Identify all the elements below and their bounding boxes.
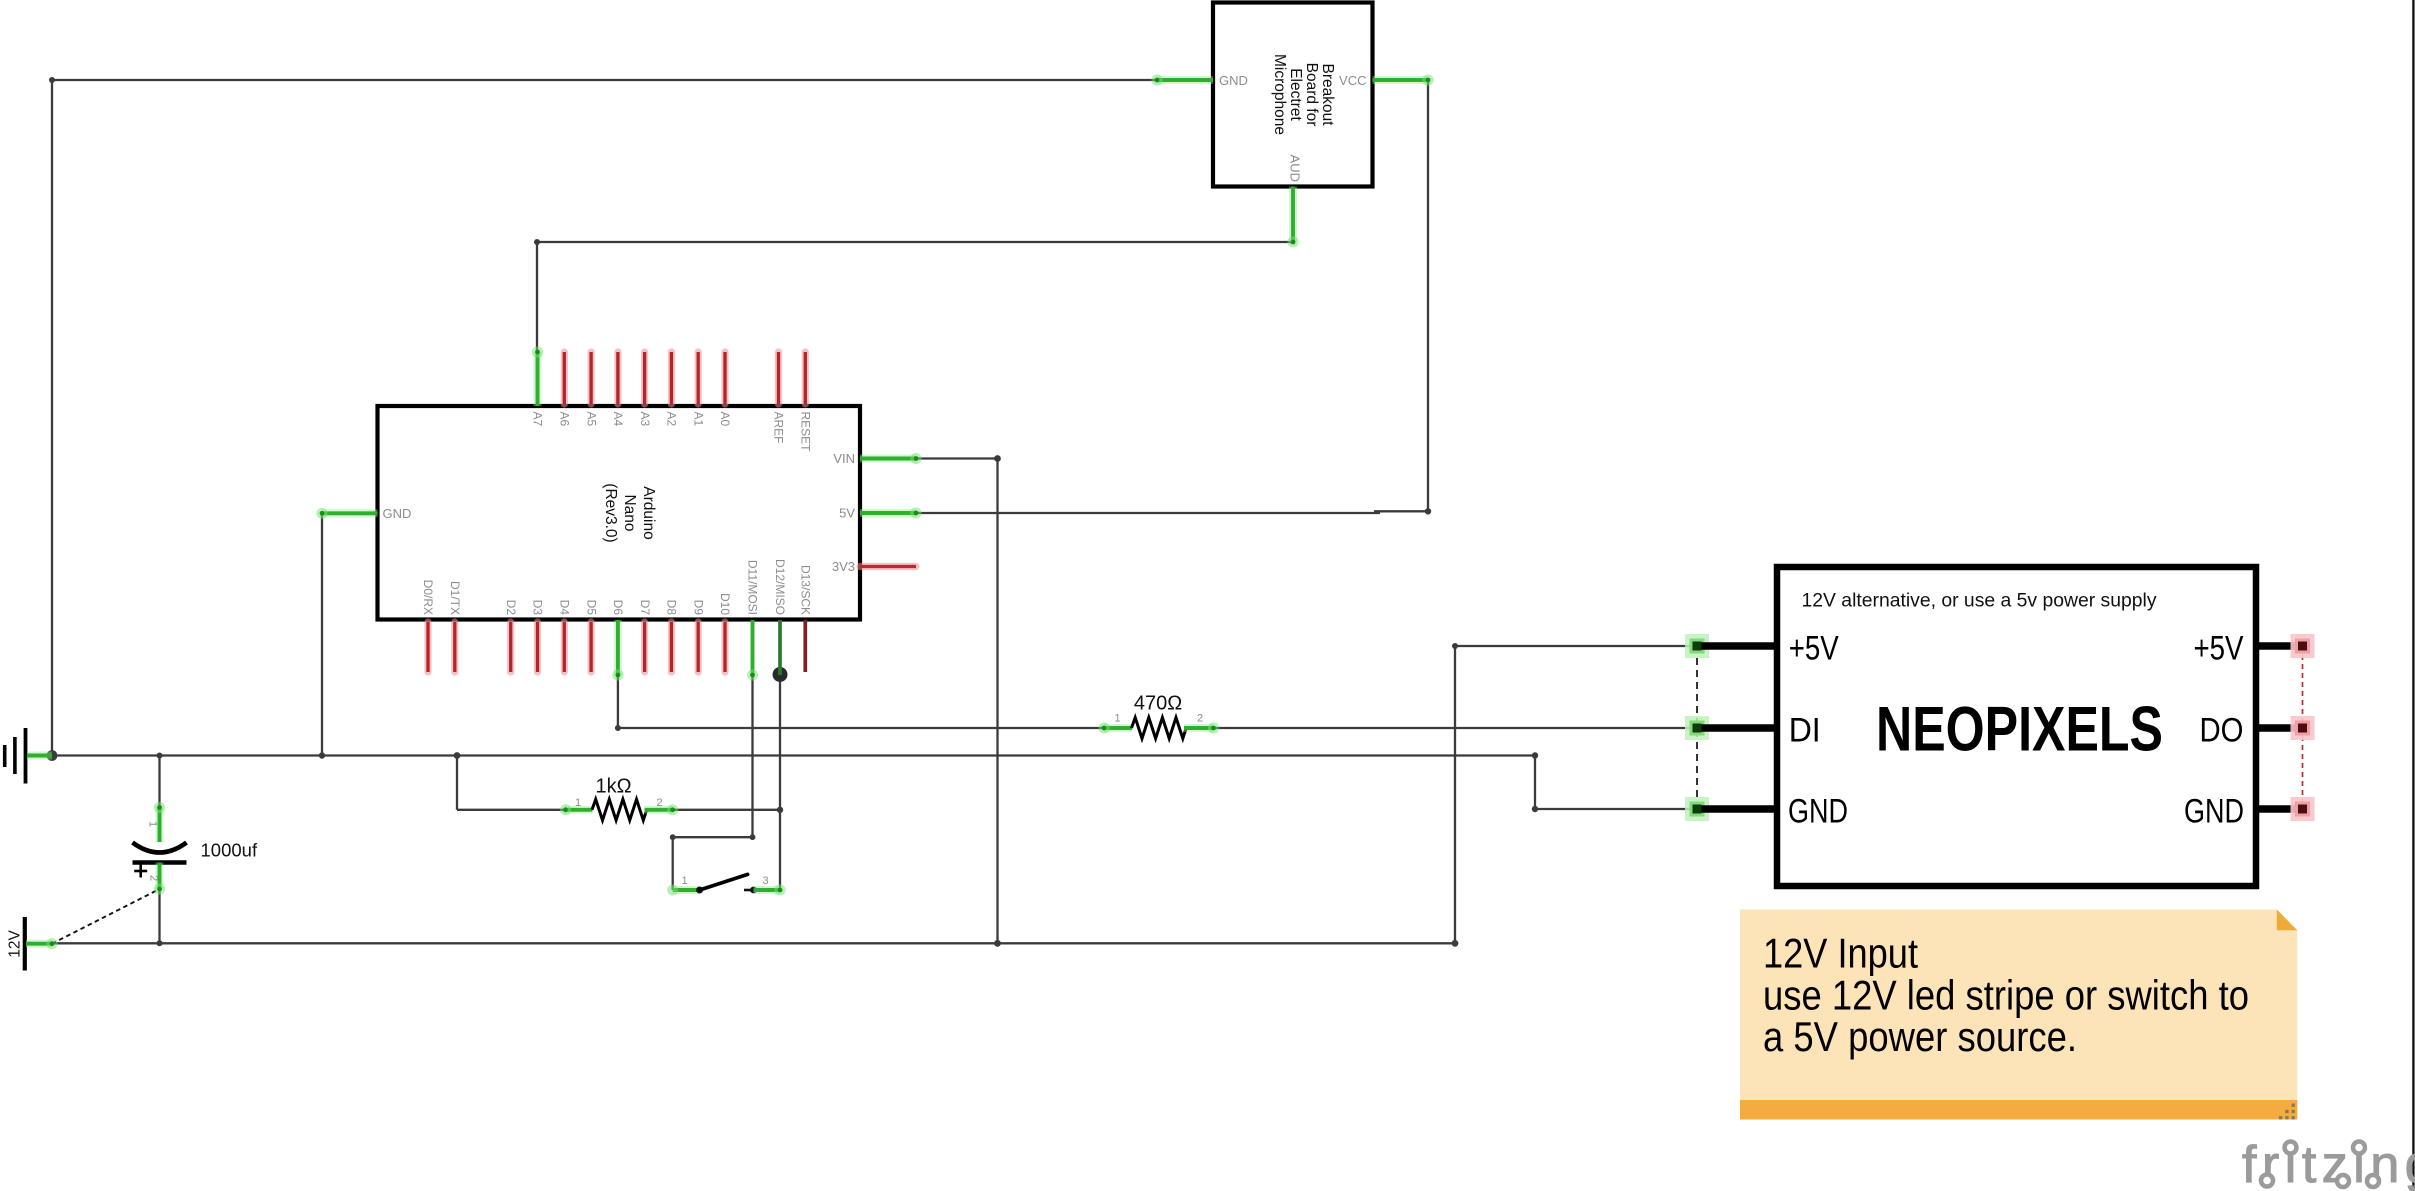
sticky note body	[1740, 910, 2297, 1120]
Arduino pin D8	[668, 622, 675, 672]
svg-text:1: 1	[575, 797, 581, 809]
resistor R1 pin2 stub	[1184, 724, 1214, 732]
svg-text:A0: A0	[718, 412, 732, 427]
Arduino pin D9	[695, 622, 702, 672]
wire: Arduino D12 vertical to switch pin3	[779, 675, 781, 891]
svg-text:D3: D3	[531, 600, 545, 616]
svg-text:Nano: Nano	[621, 494, 638, 531]
Arduino pin D6	[614, 620, 622, 675]
svg-text:A5: A5	[584, 412, 598, 427]
Arduino pin D13/SCK	[803, 620, 807, 672]
Arduino pin A0	[721, 352, 728, 404]
capacitor C1 pin 1	[156, 807, 164, 843]
node: D12 junction big dot	[773, 667, 788, 682]
sticky note resize grip	[2292, 1104, 2295, 1107]
Arduino pin A4	[614, 352, 621, 404]
wire: 12V riser vertical (VIN junction down to 12V rail)	[996, 459, 998, 944]
svg-text:VIN: VIN	[833, 451, 855, 466]
wire: GND net top-left vertical (mic GND to ground junction)	[51, 80, 53, 756]
wire: 12V rail riser to NeoPixels +5V	[1454, 646, 1456, 943]
svg-text:1: 1	[1114, 713, 1120, 725]
svg-text:D8: D8	[665, 600, 679, 616]
Arduino pin AREF	[775, 352, 782, 404]
svg-text:1: 1	[147, 821, 159, 827]
wire: 12V rail horizontal	[52, 942, 1455, 944]
Arduino pin D3	[534, 622, 541, 672]
mic AUD pin stub	[1289, 187, 1297, 243]
resistor R1 pin1 stub	[1104, 724, 1132, 732]
svg-text:D5: D5	[584, 600, 598, 616]
NeoPixels pin GND left	[1685, 797, 1709, 821]
mic VCC pin stub	[1373, 76, 1429, 84]
svg-text:use 12V led stripe or switch t: use 12V led stripe or switch to	[1763, 971, 2249, 1018]
12V supply symbol	[23, 917, 27, 971]
NeoPixels pin GND right	[2256, 805, 2295, 813]
svg-text:A1: A1	[691, 412, 705, 427]
Arduino pin 5V	[860, 509, 916, 517]
wire: ground rail horizontal	[52, 754, 1535, 756]
Arduino pin D12/MISO	[778, 620, 782, 675]
svg-text:5V: 5V	[839, 506, 855, 521]
wire: ground rail drop to capacitor C1	[158, 756, 160, 809]
Arduino pin 3V3	[860, 563, 916, 570]
wire: Arduino D11 vertical to switch branch	[751, 675, 753, 837]
svg-text:D1/TX: D1/TX	[448, 581, 462, 615]
svg-text:GND: GND	[2184, 793, 2244, 831]
svg-text:470Ω: 470Ω	[1134, 693, 1182, 715]
svg-text:D12/MISO: D12/MISO	[773, 559, 787, 615]
svg-text:D6: D6	[611, 600, 625, 616]
wire: ground rail drop to resistor R2 (1k)	[456, 756, 458, 810]
ground symbol	[3, 745, 7, 767]
Arduino pin A2	[668, 352, 675, 404]
svg-text:Board for: Board for	[1303, 63, 1320, 127]
Arduino pin VIN	[860, 455, 916, 463]
svg-text:D9: D9	[691, 600, 705, 616]
svg-text:AUD: AUD	[1288, 155, 1303, 182]
svg-text:GND: GND	[1788, 793, 1848, 831]
svg-text:3V3: 3V3	[832, 559, 855, 574]
Arduino pin D5	[587, 622, 594, 672]
Arduino pin D7	[641, 622, 648, 672]
NeoPixels pin DI	[1685, 716, 1709, 740]
svg-text:GND: GND	[383, 506, 412, 521]
svg-text:A4: A4	[611, 412, 625, 427]
Arduino pin D4	[561, 622, 568, 672]
Arduino pin D0/RX	[424, 622, 431, 672]
Arduino pin A7	[534, 352, 542, 406]
wire: ground rail to NeoPixels GND jog	[1534, 756, 1536, 810]
resistor R2 pin1 stub	[565, 806, 593, 814]
svg-text:Breakout: Breakout	[1319, 63, 1336, 126]
wire: resistor R1 pin2 to NeoPixels DI	[1214, 727, 1694, 729]
wire: Arduino VIN stub to 12V riser	[916, 457, 998, 459]
svg-text:NEOPIXELS: NEOPIXELS	[1876, 695, 2163, 765]
wire: switch branch horizontal	[673, 836, 753, 838]
svg-text:3: 3	[762, 875, 768, 887]
svg-text:+5V: +5V	[2194, 629, 2244, 667]
canvas right edge border	[2412, 0, 2414, 1191]
svg-text:GND: GND	[1219, 73, 1248, 88]
wire: mic VCC to Arduino 5V horizontal	[1374, 510, 1428, 512]
capacitor C1 curved plate	[133, 843, 187, 853]
Arduino pin D10	[721, 622, 728, 672]
svg-text:a 5V power source.: a 5V power source.	[1763, 1013, 2077, 1060]
fritzing logo ring dots	[2285, 1142, 2297, 1154]
sticky note fold corner	[2277, 910, 2298, 931]
sticky note bottom strip	[1740, 1100, 2297, 1120]
svg-text:12V Input: 12V Input	[1763, 930, 1918, 977]
NeoPixels pin +5V right	[2256, 642, 2295, 650]
wire: GND net top horizontal (ground to mic GND)	[52, 79, 1157, 81]
svg-text:1kΩ: 1kΩ	[595, 776, 631, 798]
switch S1 pin3 stub	[754, 886, 781, 894]
switch S1 pivot dot	[696, 887, 703, 894]
NeoPixels pin +5V left	[1685, 634, 1709, 658]
Arduino Nano U1 body	[378, 406, 861, 620]
switch S1 lever	[700, 874, 748, 890]
svg-text:VCC: VCC	[1339, 73, 1366, 88]
switch S1 pin3 lead	[744, 889, 754, 892]
svg-text:D0/RX: D0/RX	[421, 580, 435, 615]
Arduino pin GND (left)	[322, 509, 378, 517]
microphone breakout board body	[1213, 3, 1373, 187]
svg-text:1: 1	[681, 875, 687, 887]
Arduino pin RESET	[802, 352, 809, 404]
wire: switch branch drop to switch pin1	[672, 837, 674, 890]
svg-text:2: 2	[148, 875, 160, 881]
switch S1 pin1 stub	[673, 886, 700, 894]
svg-text:+5V: +5V	[1789, 629, 1839, 667]
resistor R2 pin2 stub	[645, 806, 673, 814]
Arduino pin A5	[587, 352, 594, 404]
svg-text:A6: A6	[558, 412, 572, 427]
svg-text:D7: D7	[638, 600, 652, 616]
svg-text:12V alternative, or use a 5v p: 12V alternative, or use a 5v power suppl…	[1802, 590, 2158, 611]
svg-text:D2: D2	[504, 600, 518, 616]
svg-text:A3: A3	[638, 412, 652, 427]
svg-text:12V: 12V	[7, 930, 24, 958]
svg-text:D13/SCK: D13/SCK	[799, 565, 813, 615]
svg-text:D4: D4	[558, 600, 572, 616]
svg-text:A2: A2	[665, 412, 679, 427]
Arduino pin A3	[641, 352, 648, 404]
Arduino pin A1	[695, 352, 702, 404]
Arduino pin A6	[561, 352, 568, 404]
resistor R1 zigzag	[1132, 718, 1187, 739]
wire: mic VCC vertical down	[1427, 80, 1429, 511]
svg-text:D10: D10	[718, 593, 732, 615]
resistor R2 zigzag	[592, 799, 647, 820]
svg-text:Arduino: Arduino	[640, 486, 657, 539]
capacitor C1 straight plate	[133, 860, 187, 865]
wire: mic AUD to Arduino A7 horizontal	[537, 241, 1293, 243]
wire: capacitor C1 bottom to 12V rail	[158, 889, 160, 943]
Arduino pin D11/MOSI	[751, 620, 755, 675]
svg-text:(Rev3.0): (Rev3.0)	[602, 483, 619, 542]
svg-text:D11/MOSI: D11/MOSI	[746, 560, 760, 615]
wire: Arduino D6 to resistor R1 (470)	[617, 675, 619, 728]
wire: Arduino GND drop to ground rail	[321, 513, 323, 755]
svg-text:1000uf: 1000uf	[201, 840, 258, 861]
svg-text:A7: A7	[531, 412, 545, 427]
NeoPixels internal bus dashed left	[1696, 646, 1698, 809]
wire: resistor R2 pin2 to D12 vertical	[672, 809, 780, 811]
svg-text:DI: DI	[1789, 712, 1821, 750]
capacitor C1 pin 2	[156, 863, 164, 890]
NeoPixels internal bus dashed right	[2302, 646, 2304, 809]
capacitor C1 plus sign	[134, 870, 147, 873]
Arduino pin D2	[507, 622, 514, 672]
NeoPixels pin DO	[2256, 724, 2295, 732]
NeoPixels strip body	[1777, 567, 2256, 886]
node: ground junction dot	[47, 750, 58, 761]
svg-text:DO: DO	[2200, 712, 2244, 750]
ratsnest: 12V to capacitor pin2 (dashed)	[52, 889, 160, 944]
wire: mic AUD to Arduino A7 vertical drop	[536, 242, 538, 352]
svg-text:AREF: AREF	[772, 412, 786, 444]
svg-text:2: 2	[1197, 713, 1203, 725]
svg-text:2: 2	[656, 797, 662, 809]
svg-text:RESET: RESET	[799, 412, 813, 453]
svg-text:Electret: Electret	[1287, 68, 1304, 121]
Arduino pin D1/TX	[451, 622, 458, 672]
mic GND pin stub	[1157, 76, 1213, 84]
svg-text:Microphone: Microphone	[1271, 54, 1288, 135]
